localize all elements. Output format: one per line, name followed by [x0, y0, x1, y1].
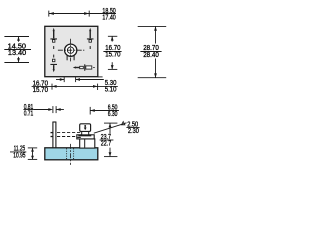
left blade side view	[51, 122, 57, 148]
mounting hole	[65, 44, 77, 56]
package body top view	[45, 26, 98, 76]
dim 5.30/5.10	[98, 76, 103, 78]
svg-text:6.30: 6.30	[108, 111, 118, 118]
svg-text:15.70: 15.70	[105, 52, 120, 59]
dim 16.70/15.70 right of body	[103, 36, 121, 69]
dim 2.50/2.30 with leader	[94, 123, 127, 133]
dim 6.50/6.30	[90, 107, 119, 115]
svg-text:5.10: 5.10	[105, 87, 117, 94]
pin 2 top-right (top view blade)	[87, 28, 94, 49]
hidden dashed lines	[57, 132, 82, 134]
dim 18.50/17.40 top	[49, 11, 116, 17]
svg-text:13.40: 13.40	[8, 50, 26, 57]
dim line A with arrows	[56, 77, 104, 82]
hidden hole dotted	[66, 148, 68, 159]
dim 23.7/22.7	[100, 123, 118, 157]
body side view	[45, 148, 98, 160]
pin 3 bottom-left (top view blade)	[50, 55, 57, 73]
hole centerline side	[70, 144, 72, 165]
dim 0.81/0.71	[23, 106, 64, 113]
svg-text:15.70: 15.70	[33, 87, 49, 94]
svg-text:10.95: 10.95	[13, 153, 25, 160]
pin 4 plus terminal horizontal (top view blade)	[73, 64, 95, 71]
faston terminal front view	[77, 124, 95, 148]
svg-text:2.30: 2.30	[128, 128, 139, 135]
svg-text:22.7: 22.7	[101, 141, 112, 148]
hole centerline horizontal	[58, 49, 84, 51]
svg-text:17.40: 17.40	[102, 15, 116, 22]
svg-text:11.25: 11.25	[14, 146, 26, 153]
dim 11.25/10.95	[10, 148, 37, 160]
hole slot lines	[66, 55, 68, 60]
terminal dimple arrow	[84, 125, 86, 127]
dim 16.70/15.70 bottom (line B with text)	[32, 84, 118, 90]
svg-text:0.71: 0.71	[24, 110, 34, 117]
collar dark marks	[78, 135, 91, 137]
dim 28.70/28.40 far right	[138, 26, 167, 77]
hole centerline vertical	[70, 39, 72, 62]
svg-text:28.40: 28.40	[143, 52, 159, 59]
dim 14.50/13.40 left	[4, 37, 31, 63]
pin 1 top-left (top view blade)	[50, 28, 57, 49]
